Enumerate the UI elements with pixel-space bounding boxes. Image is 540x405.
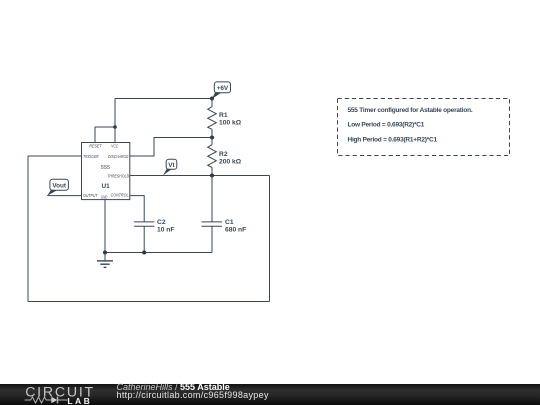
wire output bbox=[47, 195, 81, 197]
node R1/R2/discharge junction bbox=[210, 136, 214, 140]
svg-text:Low Period = 0.693(R2)*C1: Low Period = 0.693(R2)*C1 bbox=[348, 122, 425, 129]
svg-text:100 kΩ: 100 kΩ bbox=[219, 119, 242, 126]
svg-text:VCC: VCC bbox=[111, 143, 118, 148]
svg-text:U1: U1 bbox=[102, 183, 111, 190]
svg-text:C2: C2 bbox=[157, 219, 166, 226]
svg-text:CONTROL: CONTROL bbox=[111, 192, 129, 197]
wire top rail bbox=[115, 98, 212, 100]
wire trigger bbox=[28, 155, 82, 157]
footer title line bbox=[117, 383, 230, 392]
resistor R1 bbox=[208, 99, 242, 138]
svg-text:C1: C1 bbox=[225, 219, 234, 226]
svg-text:LAB: LAB bbox=[67, 396, 92, 405]
capacitor C2 bbox=[134, 219, 175, 253]
svg-text:+6V: +6V bbox=[217, 85, 229, 92]
svg-text:10 nF: 10 nF bbox=[157, 226, 174, 233]
svg-text:DISCHARGE: DISCHARGE bbox=[108, 154, 129, 159]
CircuitLab logo bbox=[0, 384, 110, 405]
net flag Vt bbox=[163, 159, 177, 175]
wire feedback loop right side bbox=[269, 176, 271, 302]
IC U1 555 timer body bbox=[82, 143, 130, 200]
footer url line bbox=[117, 391, 269, 400]
node +6V supply junction bbox=[210, 97, 214, 101]
node R2/C1/threshold junction bbox=[210, 174, 214, 178]
wire discharge to R1/R2 node bbox=[130, 138, 212, 157]
wire threshold rail bbox=[130, 175, 270, 177]
wire GND pin drop bbox=[104, 200, 106, 253]
node C2 bottom junction bbox=[142, 251, 146, 255]
footer bar bbox=[0, 384, 540, 405]
capacitor C1 bbox=[202, 176, 247, 253]
node ground junction bbox=[103, 251, 107, 255]
svg-text:OUTPUT: OUTPUT bbox=[83, 193, 98, 198]
svg-text:200 kΩ: 200 kΩ bbox=[219, 158, 242, 165]
svg-text:Vout: Vout bbox=[52, 183, 67, 190]
svg-text:680 nF: 680 nF bbox=[225, 226, 246, 233]
node RESET/VCC junction bbox=[113, 125, 117, 129]
wire feedback loop left side bbox=[27, 156, 29, 302]
ground bbox=[97, 253, 113, 268]
resistor R2 bbox=[208, 138, 242, 176]
annotation note box bbox=[338, 99, 510, 156]
svg-text:R1: R1 bbox=[219, 112, 228, 119]
wire bottom ground rail bbox=[105, 252, 212, 254]
power flag +6V bbox=[212, 82, 231, 99]
svg-text:TRIGGER: TRIGGER bbox=[83, 154, 99, 159]
wire control to C2 bbox=[130, 196, 144, 222]
wire feedback loop bottom bbox=[28, 301, 270, 303]
svg-text:555: 555 bbox=[101, 165, 111, 171]
wire VCC pin riser bbox=[114, 99, 116, 143]
svg-text:555 Timer configured for Astab: 555 Timer configured for Astable operati… bbox=[348, 107, 473, 114]
svg-text:THRESHOLD: THRESHOLD bbox=[107, 173, 129, 178]
svg-text:RESET: RESET bbox=[89, 143, 102, 148]
wire RESET pin riser bbox=[95, 127, 115, 143]
svg-text:GND: GND bbox=[101, 195, 108, 200]
svg-text:Vt: Vt bbox=[168, 162, 175, 169]
svg-text:High Period = 0.693(R1+R2)*C1: High Period = 0.693(R1+R2)*C1 bbox=[348, 136, 438, 143]
net flag Vout bbox=[47, 179, 68, 195]
svg-text:R2: R2 bbox=[219, 151, 228, 158]
